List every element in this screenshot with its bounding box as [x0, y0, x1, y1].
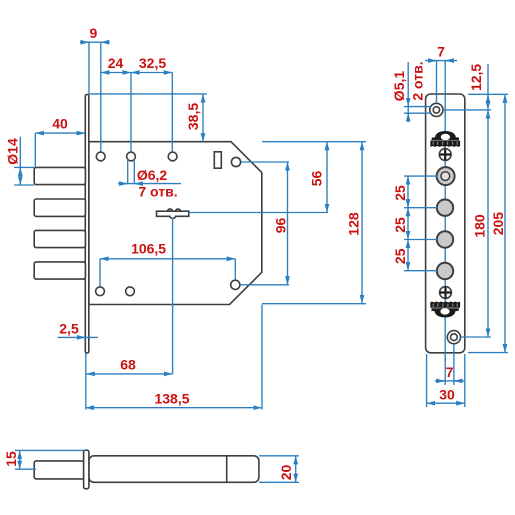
svg-text:106,5: 106,5 [131, 241, 166, 257]
svg-text:205: 205 [490, 212, 506, 236]
svg-text:7: 7 [446, 364, 454, 380]
svg-text:96: 96 [273, 218, 289, 234]
svg-text:38,5: 38,5 [185, 103, 201, 130]
svg-text:138,5: 138,5 [154, 391, 189, 407]
svg-text:Ø14: Ø14 [4, 138, 20, 165]
svg-text:25: 25 [392, 248, 408, 264]
svg-text:2 отв.: 2 отв. [410, 61, 426, 100]
svg-text:25: 25 [392, 217, 408, 233]
svg-text:68: 68 [120, 357, 136, 373]
svg-text:32,5: 32,5 [139, 55, 166, 71]
svg-text:15: 15 [3, 451, 19, 467]
svg-text:2,5: 2,5 [59, 321, 79, 337]
svg-text:128: 128 [346, 212, 362, 236]
svg-text:Ø6,2: Ø6,2 [137, 167, 168, 183]
svg-text:Ø5,1: Ø5,1 [391, 71, 407, 102]
svg-text:9: 9 [90, 25, 98, 41]
svg-text:20: 20 [278, 465, 294, 481]
svg-text:56: 56 [309, 171, 325, 187]
svg-text:24: 24 [108, 55, 124, 71]
svg-text:7: 7 [437, 44, 445, 60]
svg-text:7 отв.: 7 отв. [138, 184, 177, 200]
svg-text:40: 40 [52, 116, 68, 132]
svg-text:180: 180 [471, 214, 487, 238]
svg-text:12,5: 12,5 [468, 64, 484, 91]
svg-text:25: 25 [392, 185, 408, 201]
svg-text:30: 30 [439, 387, 455, 403]
